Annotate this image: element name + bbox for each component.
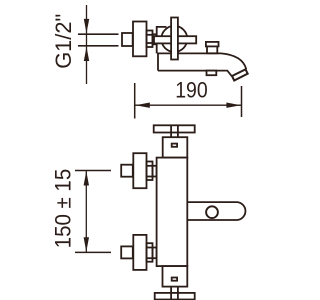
spout underside boss (side view) — [207, 71, 217, 76]
dimension 150 bottom extension line — [75, 251, 111, 253]
svg-text:G1/2": G1/2" — [51, 14, 76, 69]
cross handle horizontal arm (side view) — [154, 36, 196, 43]
body column (front view) — [157, 158, 188, 267]
valve bonnet bottom (front view) — [163, 266, 188, 287]
bottom escutcheon (front view) — [133, 235, 146, 270]
cross handle top bar (front view) — [154, 125, 195, 132]
svg-text:190: 190 — [175, 78, 208, 103]
adapter inner ring (side view) — [153, 34, 157, 44]
top adapter collar (front view) — [147, 162, 153, 181]
arrowhead right 190 — [226, 103, 241, 108]
bottom inlet nut (front view) — [121, 246, 133, 258]
valve cap circle (side view) — [161, 26, 187, 52]
top escutcheon (front view) — [133, 153, 146, 188]
wire: inlet pipe bottom line (side view) — [78, 45, 119, 47]
top adapter inner ring (front view) — [153, 166, 157, 177]
cross handle vertical arm (side view) — [171, 18, 178, 60]
valve bonnet top (front view) — [163, 137, 188, 157]
top inlet nut (front view) — [121, 165, 133, 177]
spout body outline (side view) — [158, 53, 246, 76]
dimension 190 right extension line — [241, 86, 243, 117]
bonnet slot bottom — [172, 278, 177, 281]
adapter collar (side view) — [147, 31, 153, 48]
bottom adapter collar (front view) — [147, 243, 153, 262]
svg-text:150 ± 15: 150 ± 15 — [50, 169, 75, 249]
dimension 150 top extension line — [75, 170, 111, 172]
dimension 150 line — [85, 170, 87, 252]
bottom adapter inner ring (front view) — [153, 248, 157, 259]
wire: inlet pipe top line (side view) — [78, 33, 119, 35]
dimension 190 line — [135, 104, 242, 106]
diverter circle (front view) — [206, 206, 218, 218]
arrowhead down G1/2 — [84, 19, 89, 33]
handle stem lines (front view top) — [170, 125, 172, 137]
dimension leader line G1/2 — [86, 5, 88, 84]
cross handle bottom bar (front view) — [155, 293, 195, 300]
diverter knob body (side view) — [207, 46, 217, 53]
arrowhead down 150 — [84, 237, 89, 252]
spout aerator tip (side view) — [232, 69, 248, 80]
arrowhead left 190 — [135, 103, 150, 108]
dimension 190 left extension line — [134, 83, 136, 119]
bonnet slot top — [172, 144, 177, 147]
arrowhead up G1/2 — [84, 47, 89, 61]
valve housing (side view) — [157, 27, 167, 54]
handle stem lines (front view bottom) — [170, 287, 172, 300]
adapter collar division lines — [147, 34, 153, 36]
inlet nut (side view) — [122, 33, 133, 46]
wall escutcheon (side view) — [133, 22, 147, 57]
arrowhead up 150 — [84, 171, 89, 186]
diverter knob lip (side view) — [206, 42, 219, 47]
spout front view — [187, 202, 245, 220]
